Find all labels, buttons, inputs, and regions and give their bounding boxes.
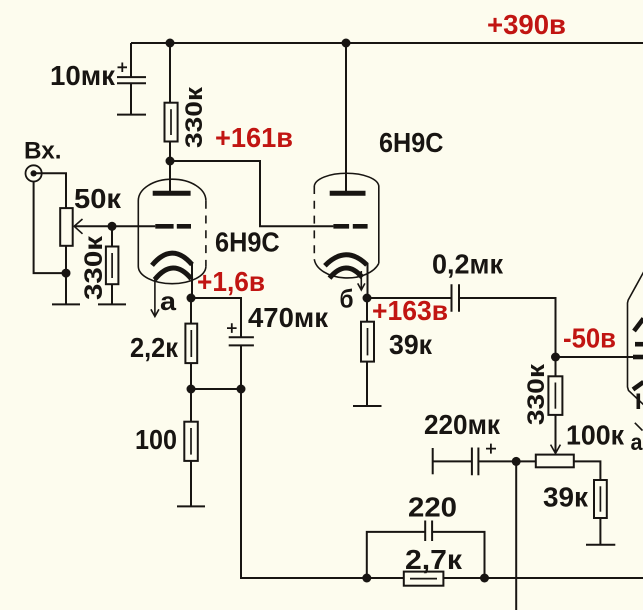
svg-text:2,7к: 2,7к bbox=[405, 544, 463, 575]
svg-text:-50в: -50в bbox=[563, 323, 616, 354]
resistor R8 inner line bbox=[410, 578, 437, 580]
resistor R7 39k body bbox=[594, 480, 607, 518]
svg-text:+1,6в: +1,6в bbox=[197, 266, 265, 297]
resistor R8 2.7k body bbox=[404, 572, 444, 586]
capacitor C5 220 plates bbox=[425, 521, 432, 542]
capacitor C1 10mk leads bbox=[130, 43, 132, 115]
svg-text:220мк: 220мк bbox=[424, 409, 501, 440]
tube V1 anode plate bbox=[153, 191, 191, 196]
resistor R3 inner line bbox=[190, 330, 192, 357]
node junction b +163V bbox=[363, 294, 372, 303]
ground R2 bbox=[98, 303, 126, 305]
svg-text:+161в: +161в bbox=[215, 122, 293, 153]
wire node joining R3 and C2 bbox=[191, 388, 241, 390]
svg-text:Вх.: Вх. bbox=[24, 138, 62, 165]
capacitor C4 220mk wires bbox=[433, 460, 517, 462]
wire tube2 cathode to node b bbox=[367, 263, 369, 298]
wire pot 100k left lead bbox=[516, 460, 536, 462]
resistor R3 2.2k body bbox=[185, 324, 197, 364]
capacitor C4 220mk terminal bar bbox=[432, 448, 434, 474]
wire pot 100k right lead bbox=[574, 461, 601, 480]
tube V1 cathode upper arc bbox=[152, 253, 192, 265]
node junction a +1.6V bbox=[187, 294, 196, 303]
potentiometer 50k body bbox=[60, 208, 72, 246]
tube V2 cathode lower arc bbox=[330, 268, 363, 278]
svg-text:6Н9С: 6Н9С bbox=[215, 227, 280, 258]
ground input pot bbox=[52, 303, 80, 305]
node junction combo right bbox=[480, 574, 489, 583]
node junction top rail R1 bbox=[166, 39, 175, 48]
wire wiper to grid1 bbox=[74, 225, 155, 227]
resistor R1 inner line bbox=[170, 109, 172, 135]
resistor R4 100 body bbox=[184, 422, 198, 461]
arrowhead R6 to pot 100k bbox=[551, 445, 561, 454]
wire node a to 470mk bbox=[191, 298, 241, 337]
tube V1 envelope dashed bbox=[205, 201, 207, 267]
node junction C2 bottom bbox=[237, 385, 246, 394]
tube V3 anode diagonal bbox=[634, 319, 643, 332]
tube V1 envelope solid bbox=[138, 179, 206, 283]
svg-text:+390в: +390в bbox=[487, 9, 566, 40]
node junction combo left bbox=[362, 574, 371, 583]
resistor R6 330k body bbox=[548, 376, 562, 415]
svg-text:470мк: 470мк bbox=[248, 302, 329, 333]
wire pot bottom to ground bbox=[65, 246, 67, 305]
capacitor C3 0.2mk plates bbox=[452, 284, 460, 311]
node junction input ground bbox=[62, 269, 71, 278]
wire bottom rail bbox=[241, 389, 643, 578]
node junction C4 pot bbox=[512, 457, 521, 466]
capacitor C4 220mk plates bbox=[472, 448, 479, 476]
wire input ground branch bbox=[34, 182, 66, 274]
wire tube2 anode lead bbox=[345, 43, 347, 193]
potentiometer 100k body bbox=[536, 455, 574, 468]
resistor R5 39k leads bbox=[366, 298, 368, 406]
resistor R6 330k leads bbox=[555, 357, 557, 453]
wire node -50V to tube3 grid bbox=[556, 356, 634, 358]
resistor R2 330k leads bbox=[111, 226, 113, 304]
svg-text:10мк: 10мк bbox=[50, 60, 116, 91]
svg-text:6Н9С: 6Н9С bbox=[379, 127, 443, 158]
arrowhead node a bbox=[151, 309, 159, 316]
tube V2 envelope solid bbox=[314, 173, 379, 278]
resistor R1 330k leads bbox=[169, 43, 171, 161]
svg-text:50к: 50к bbox=[74, 183, 122, 214]
svg-text:330к: 330к bbox=[181, 86, 208, 148]
ground R7 bbox=[586, 544, 615, 546]
arrowhead node b bbox=[358, 283, 365, 290]
tube V3 grid dash upper bbox=[635, 342, 643, 347]
wire anode1 to grid2 bbox=[170, 161, 333, 226]
tube V2 cathode upper arc bbox=[325, 255, 367, 266]
svg-text:100к: 100к bbox=[566, 420, 625, 451]
svg-text:220: 220 bbox=[408, 492, 457, 523]
tube V1 cathode lower arc bbox=[155, 268, 192, 280]
arrow node a from tube V1 bbox=[154, 279, 156, 316]
svg-text:+163в: +163в bbox=[372, 295, 448, 326]
input terminal Vx center dot bbox=[30, 170, 36, 176]
capacitor C2 plus sign bbox=[227, 323, 237, 333]
tube V3 envelope partial bbox=[628, 270, 643, 407]
ground R5 bbox=[353, 405, 382, 407]
tube V3 cathode diagonal bbox=[633, 382, 643, 390]
node junction +161V bbox=[166, 157, 175, 166]
capacitor C2 470mk plates bbox=[229, 337, 254, 345]
capacitor C1 plus sign bbox=[118, 63, 128, 73]
wire C3 to node -50V bbox=[459, 298, 556, 357]
tube V2 grid dashes bbox=[333, 224, 367, 229]
wire +390V top rail bbox=[131, 42, 643, 44]
tube V1 grid dashes bbox=[155, 224, 191, 229]
tube V3 arrow to node a bbox=[635, 423, 643, 431]
wire node b to C3 bbox=[367, 297, 452, 299]
tube V3 cathode lead bbox=[636, 394, 640, 410]
resistor R3 2.2k leads bbox=[190, 298, 192, 389]
wire pot junction down offpage bbox=[515, 461, 517, 610]
svg-text:2,2к: 2,2к bbox=[130, 332, 179, 363]
resistor R6 inner line bbox=[554, 383, 556, 409]
ground R4 bbox=[177, 505, 205, 507]
resistor R5 inner line bbox=[367, 328, 369, 355]
svg-text:330к: 330к bbox=[80, 235, 108, 300]
svg-text:б: б bbox=[340, 284, 354, 314]
resistor R2 inner line bbox=[111, 253, 113, 278]
svg-text:а: а bbox=[160, 286, 177, 316]
resistor R7 inner line bbox=[599, 486, 601, 511]
wire C5 220 branch bbox=[367, 532, 485, 578]
wire input to pot top bbox=[34, 173, 66, 208]
resistor R5 39k body bbox=[361, 322, 374, 362]
svg-text:330к: 330к bbox=[523, 363, 550, 425]
arrowhead pot 50k wiper bbox=[74, 219, 82, 234]
wire tube1 cathode to node a bbox=[191, 263, 193, 298]
capacitor C1 bottom terminal bar bbox=[117, 114, 146, 116]
resistor R2 330k body bbox=[106, 247, 119, 285]
resistor R1 330k body bbox=[165, 103, 178, 142]
wire tube1 anode lead bbox=[169, 161, 171, 193]
resistor R7 39k lower lead bbox=[599, 518, 601, 545]
capacitor C4 plus sign bbox=[486, 444, 496, 454]
capacitor C2 470mk lower lead bbox=[240, 345, 242, 389]
resistor R4 inner line bbox=[190, 428, 192, 455]
svg-text:39к: 39к bbox=[389, 329, 433, 360]
resistor R4 100 leads bbox=[190, 389, 192, 506]
svg-text:0,2мк: 0,2мк bbox=[432, 249, 504, 280]
tube V3 grid bar bbox=[633, 355, 643, 360]
tube V2 anode plate bbox=[330, 191, 366, 196]
svg-text:100: 100 bbox=[135, 424, 177, 455]
node junction -50V bbox=[551, 353, 560, 362]
arrow node b from tube V2 bbox=[360, 271, 362, 290]
svg-text:39к: 39к bbox=[543, 482, 589, 513]
svg-text:а: а bbox=[631, 429, 643, 455]
node junction top rail tube2 bbox=[342, 39, 351, 48]
node junction R3 bottom bbox=[187, 385, 196, 394]
input terminal Vx circle bbox=[25, 165, 41, 181]
node junction wiper R2 bbox=[108, 222, 117, 231]
tube V2 envelope dashed bbox=[313, 186, 315, 259]
capacitor C1 10mk plates bbox=[117, 77, 146, 83]
